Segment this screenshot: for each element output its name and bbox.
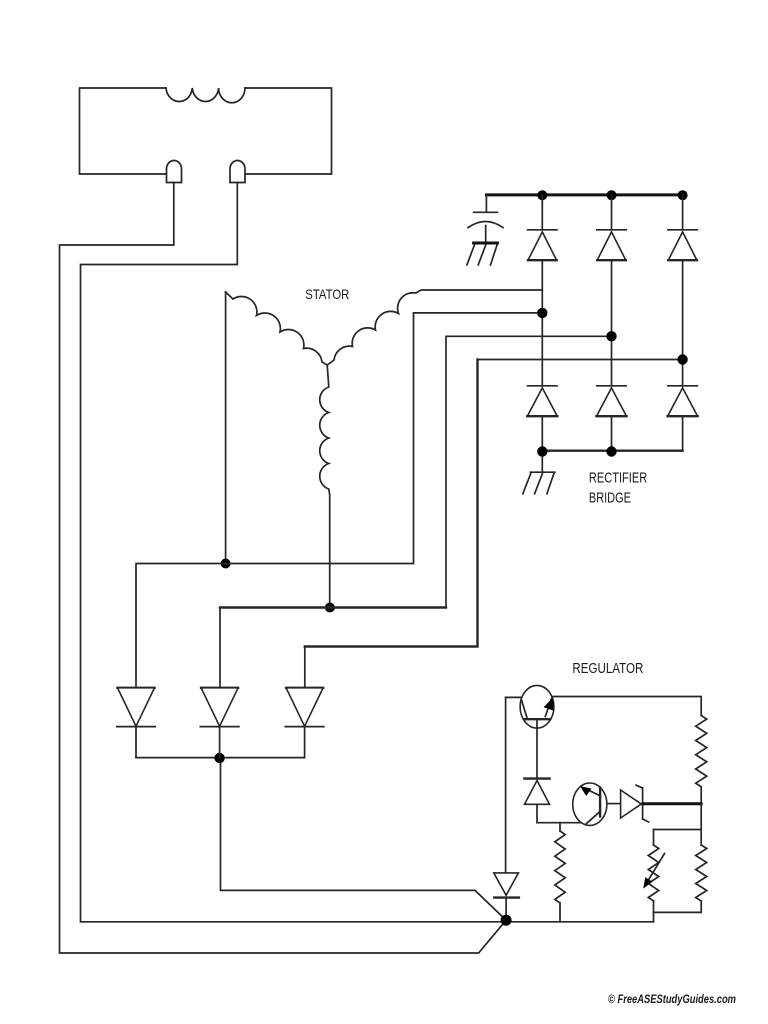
svg-text:REGULATOR: REGULATOR	[572, 661, 643, 677]
svg-text:STATOR: STATOR	[305, 286, 349, 302]
svg-text:© FreeASEStudyGuides.com: © FreeASEStudyGuides.com	[608, 994, 736, 1006]
svg-text:RECTIFIER: RECTIFIER	[589, 470, 647, 486]
svg-text:BRIDGE: BRIDGE	[589, 491, 631, 507]
